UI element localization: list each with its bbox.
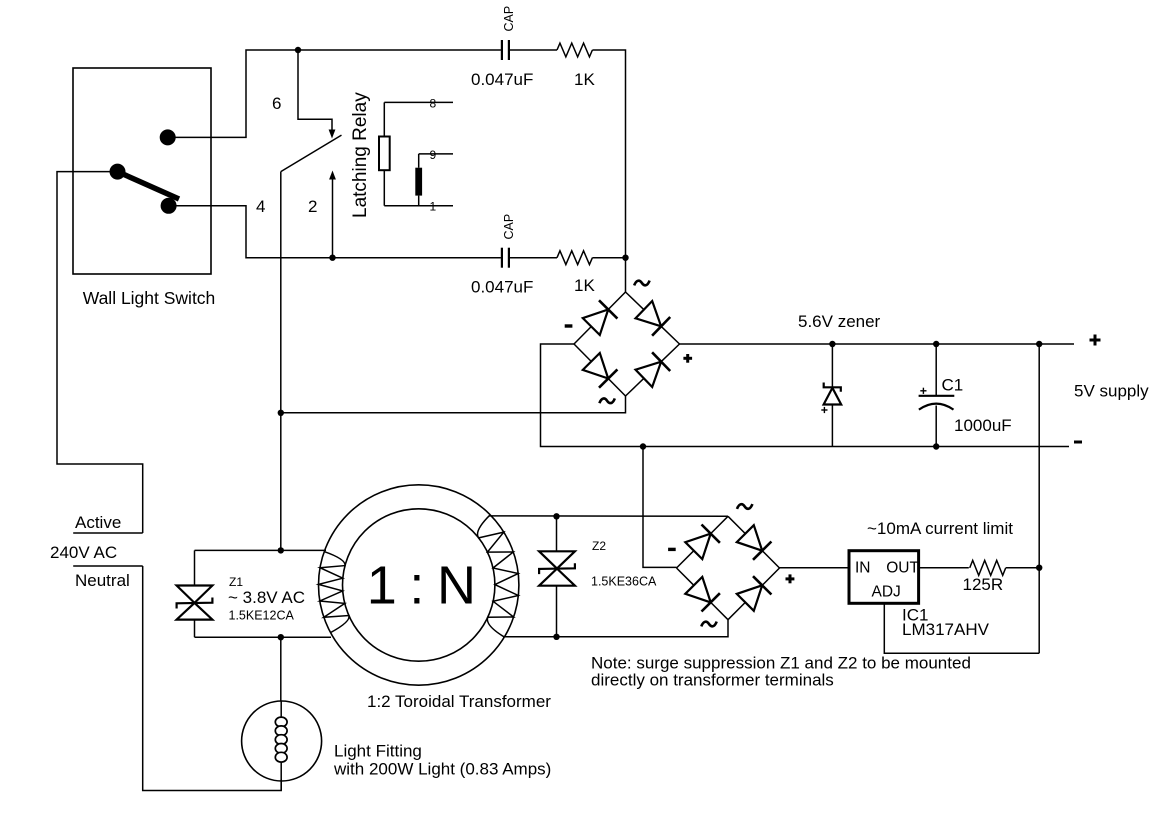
- bridge rectifier 2 diode D5 (minus to ~top): [677, 516, 729, 568]
- relay coil pin 9 wire: [419, 153, 453, 155]
- svg-text:1: 1: [430, 200, 437, 214]
- svg-text:ADJ: ADJ: [872, 584, 901, 601]
- pin 2 arrow shaft: [332, 179, 334, 258]
- svg-text:~ 3.8V AC: ~ 3.8V AC: [228, 588, 305, 607]
- capacitor CAP (lower) plates: [502, 248, 509, 268]
- svg-text:C1: C1: [942, 376, 964, 395]
- wire SW1 bottom contact to lower rail: [169, 206, 501, 258]
- svg-text:~10mA current limit: ~10mA current limit: [867, 519, 1013, 538]
- wire cap to resistor (top): [509, 49, 557, 51]
- svg-text:0.047uF: 0.047uF: [471, 70, 533, 89]
- bridge rectifier 2 diode D7 (minus to ~bottom): [677, 568, 729, 620]
- node junction primary top: [278, 547, 284, 553]
- LP1 bottom lead: [280, 762, 282, 791]
- zener lead bottom: [831, 405, 833, 447]
- node junction secondary top / Z2: [553, 513, 559, 519]
- node junction top rail: [295, 47, 301, 53]
- svg-text:125R: 125R: [963, 575, 1004, 594]
- svg-text:Neutral: Neutral: [75, 571, 130, 590]
- svg-text:9: 9: [430, 148, 437, 162]
- 5V supply minus mark: [1074, 441, 1082, 444]
- svg-text:Active: Active: [75, 513, 121, 532]
- relay coil left lead top: [383, 102, 385, 136]
- wire cap to resistor (lower): [509, 257, 557, 259]
- bridge rectifier 1 diode D2 (~top to plus): [626, 292, 680, 344]
- wire secondary top to bridge 2: [489, 515, 728, 517]
- relay switch arrow down: [329, 130, 336, 139]
- svg-text:1.5KE36CA: 1.5KE36CA: [591, 575, 657, 589]
- zener triangle: [824, 388, 842, 405]
- node junction plus rail / C1: [933, 341, 939, 347]
- bridge rectifier 2 diode D6 (~top to plus): [728, 516, 780, 568]
- resistor 125R: [970, 560, 1006, 575]
- svg-text:Z2: Z2: [592, 539, 606, 553]
- svg-text:1K: 1K: [574, 276, 595, 295]
- wire primary bottom to light fitting: [280, 637, 282, 701]
- node junction plus rail / feed down: [1036, 341, 1042, 347]
- capacitor CAP (top) plates: [502, 40, 509, 60]
- transformer T1 primary winding: [319, 552, 350, 633]
- surge suppressor Z2 top lead: [556, 516, 558, 551]
- wire IC1 ADJ loop: [884, 603, 1039, 653]
- SW1 contact common: [110, 164, 126, 180]
- C1 plus mark: [920, 388, 926, 394]
- Active terminal stub: [73, 532, 143, 534]
- Z2 lower triangle: [539, 569, 575, 586]
- bridge 1 ~ label bottom: [599, 398, 614, 403]
- svg-text:0.047uF: 0.047uF: [471, 278, 533, 297]
- relay slug lead bottom: [418, 196, 420, 206]
- svg-text:IN: IN: [855, 559, 871, 576]
- relay coil pin 8 wire: [384, 101, 453, 103]
- relay switch blade: [281, 135, 342, 172]
- wire resistor to right vertical, down to bridge 1: [592, 50, 625, 292]
- wire bridge 1 right vertex: 5V plus rail: [680, 343, 1075, 345]
- LP1 filament loops: [275, 717, 287, 762]
- svg-text:Wall Light Switch: Wall Light Switch: [83, 288, 216, 308]
- wire Neutral to lamp return: [143, 566, 282, 791]
- C1 curved plate: [919, 404, 954, 410]
- Z1 lower triangle: [177, 603, 213, 620]
- node junction minus rail to bridge 2: [640, 443, 646, 449]
- SW1 blade: [118, 172, 180, 199]
- svg-text:2: 2: [308, 197, 317, 216]
- wire resistor to node: [592, 257, 625, 259]
- svg-text:1K: 1K: [574, 70, 595, 89]
- pin 2 arrowhead up: [329, 171, 336, 180]
- IC1 regulator box: [849, 551, 919, 604]
- bridge rectifier 1 diode D4 (~bottom to plus): [626, 344, 680, 396]
- bridge 1 minus label: [565, 324, 573, 327]
- wire bridge 1 bottom vertex to relay pole: [281, 396, 626, 413]
- svg-text:Latching Relay: Latching Relay: [350, 92, 371, 218]
- bridge 2 plus label: [786, 574, 795, 583]
- node junction minus rail / C1: [933, 443, 939, 449]
- SW1 contact bottom: [161, 198, 177, 214]
- zener plus mark: [821, 407, 827, 413]
- zener cathode bar with hooks: [824, 383, 841, 392]
- wire SW1 top contact to top rail: [168, 50, 501, 137]
- svg-text:OUT: OUT: [886, 559, 919, 576]
- svg-text:LM317AHV: LM317AHV: [902, 620, 990, 639]
- wire plus rail down to 125R node and ADJ loop: [1038, 344, 1040, 653]
- svg-text:1:2 Toroidal Transformer: 1:2 Toroidal Transformer: [367, 692, 551, 711]
- svg-text:5V supply: 5V supply: [1074, 382, 1149, 401]
- svg-text:1000uF: 1000uF: [954, 416, 1012, 435]
- wall light switch SW1 box: [73, 68, 211, 274]
- C1 bottom lead: [935, 406, 937, 447]
- light fitting LP1 circle: [242, 701, 322, 781]
- svg-text:240V AC: 240V AC: [50, 543, 117, 562]
- Z1 center bar with hooks: [177, 598, 213, 609]
- svg-text:1 : N: 1 : N: [367, 556, 475, 616]
- relay switch feed from node: [298, 50, 332, 130]
- bridge 2 ~ label bottom: [701, 622, 716, 627]
- LP1 top lead inside: [280, 701, 282, 718]
- node junction secondary bottom / Z2: [553, 634, 559, 640]
- resistor 1K (lower): [557, 251, 592, 265]
- wire minus rail down to bridge 2 left vertex: [643, 447, 677, 568]
- Z1 wires to transformer primary: [195, 549, 327, 551]
- capacitor C1 top lead: [935, 344, 937, 396]
- transformer T1 secondary winding: [478, 515, 519, 637]
- Z1 bottom wire to primary: [195, 636, 332, 638]
- relay slug (black rect): [415, 168, 422, 196]
- resistor 1K (top): [557, 43, 592, 57]
- zener diode lead top: [831, 344, 833, 387]
- node junction at 625.5,257.7: [622, 255, 628, 261]
- node junction primary bottom: [278, 634, 284, 640]
- 5V supply plus mark: [1090, 335, 1101, 346]
- node junction lower rail: [329, 255, 335, 261]
- svg-text:Z1: Z1: [229, 575, 243, 589]
- wire bridge 2 right vertex to IC1 IN: [780, 567, 850, 569]
- node junction at relay pole: [278, 410, 284, 416]
- relay coil left lead bottom: [383, 170, 385, 206]
- C1 plus plate: [919, 395, 955, 397]
- Z1 bottom lead: [194, 620, 196, 638]
- transformer T1 outer circle: [319, 485, 519, 685]
- relay common pole wire: [280, 172, 282, 551]
- svg-text:8: 8: [430, 97, 437, 111]
- transformer T1 inner circle: [343, 509, 495, 661]
- relay coil body (white rect): [379, 137, 390, 171]
- wire bridge 1 left vertex to minus rail: [541, 344, 1070, 447]
- surge suppressor Z1 top lead: [194, 550, 196, 585]
- bridge rectifier 1 diode D1 (minus to ~top): [574, 292, 626, 344]
- Z2 center bar with hooks: [539, 563, 575, 574]
- relay slug lead top: [418, 154, 420, 168]
- svg-text:CAP: CAP: [502, 214, 516, 240]
- bridge 1 ~ label top: [634, 281, 649, 286]
- bridge 2 ~ label top: [737, 504, 752, 509]
- bridge 1 plus label: [683, 354, 692, 363]
- SW1 contact top: [160, 129, 176, 145]
- Z1 upper triangle: [177, 586, 213, 603]
- relay coil pin 1 wire: [384, 205, 453, 207]
- bridge 2 minus label: [668, 548, 676, 551]
- bridge rectifier 2 diode D8 (~bottom to plus): [728, 568, 780, 620]
- wire 125R to sense node: [1006, 567, 1039, 569]
- Neutral terminal stub: [73, 565, 143, 567]
- svg-text:Light Fitting: Light Fitting: [334, 742, 422, 761]
- svg-text:6: 6: [272, 94, 281, 113]
- svg-text:1.5KE12CA: 1.5KE12CA: [229, 609, 295, 623]
- wire SW1 common to Active feed: [57, 172, 143, 533]
- node junction plus rail / zener: [829, 341, 835, 347]
- wire IC1 OUT to 125R: [919, 567, 969, 569]
- svg-text:with 200W Light (0.83 Amps): with 200W Light (0.83 Amps): [333, 760, 551, 779]
- svg-text:directly on transformer termin: directly on transformer terminals: [591, 671, 834, 690]
- svg-text:4: 4: [256, 197, 265, 216]
- node junction 125R / ADJ: [1036, 565, 1042, 571]
- svg-text:CAP: CAP: [502, 6, 516, 32]
- svg-text:5.6V zener: 5.6V zener: [798, 312, 881, 331]
- bridge rectifier 1 diode D3 (minus to ~bottom): [574, 344, 626, 396]
- Z2 bottom lead: [556, 586, 558, 637]
- wire secondary bottom to bridge 2: [503, 620, 728, 637]
- Z2 upper triangle: [539, 551, 575, 568]
